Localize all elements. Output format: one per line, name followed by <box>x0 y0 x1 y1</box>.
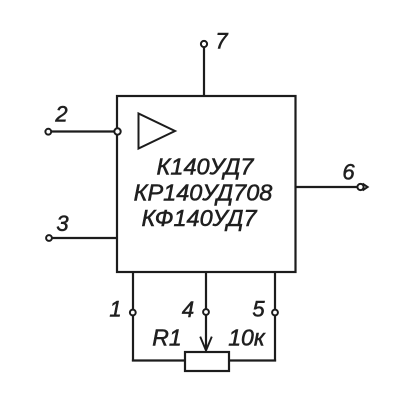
terminal pin 7 <box>201 41 207 47</box>
svg-text:6: 6 <box>342 160 355 185</box>
svg-text:4: 4 <box>182 297 194 322</box>
wire pin 3 to box <box>49 237 117 239</box>
wire pin 6 from box right <box>296 186 361 188</box>
wire pin 2 to box <box>48 130 117 132</box>
svg-text:2: 2 <box>54 102 67 127</box>
svg-text:К140УД7: К140УД7 <box>157 154 255 180</box>
terminal pin 3 <box>46 235 52 241</box>
wire pin 7 to box top <box>203 44 205 96</box>
terminal pin 6 <box>357 184 363 190</box>
wire pin 4 wiper down from box <box>205 272 207 350</box>
op-amp triangle symbol <box>139 114 176 149</box>
potentiometer R1 body <box>185 352 229 371</box>
wire pin 5 to potentiometer right <box>229 359 276 361</box>
wiper arrowhead on R1 <box>200 337 212 351</box>
svg-text:R1: R1 <box>152 325 181 351</box>
node circle: pin2 junction on box edge <box>114 128 120 134</box>
svg-text:КР140УД708: КР140УД708 <box>134 180 273 206</box>
wire pin 1 to potentiometer left <box>132 359 185 361</box>
terminal pin 6 nib <box>363 184 368 191</box>
svg-text:3: 3 <box>56 211 69 236</box>
node pin 4 <box>203 309 209 315</box>
node pin 5 <box>272 310 278 316</box>
node pin 1 <box>130 310 136 316</box>
svg-text:7: 7 <box>215 29 228 54</box>
svg-text:1: 1 <box>109 297 121 322</box>
op-amp IC body U1 (К140УД7) <box>117 96 296 272</box>
wire pin 5 down from box <box>274 272 276 362</box>
wire pin 1 down from box <box>132 272 134 362</box>
svg-text:5: 5 <box>252 297 265 322</box>
terminal pin 2 <box>45 129 51 135</box>
svg-text:10к: 10к <box>228 325 266 351</box>
svg-text:КФ140УД7: КФ140УД7 <box>141 205 257 231</box>
